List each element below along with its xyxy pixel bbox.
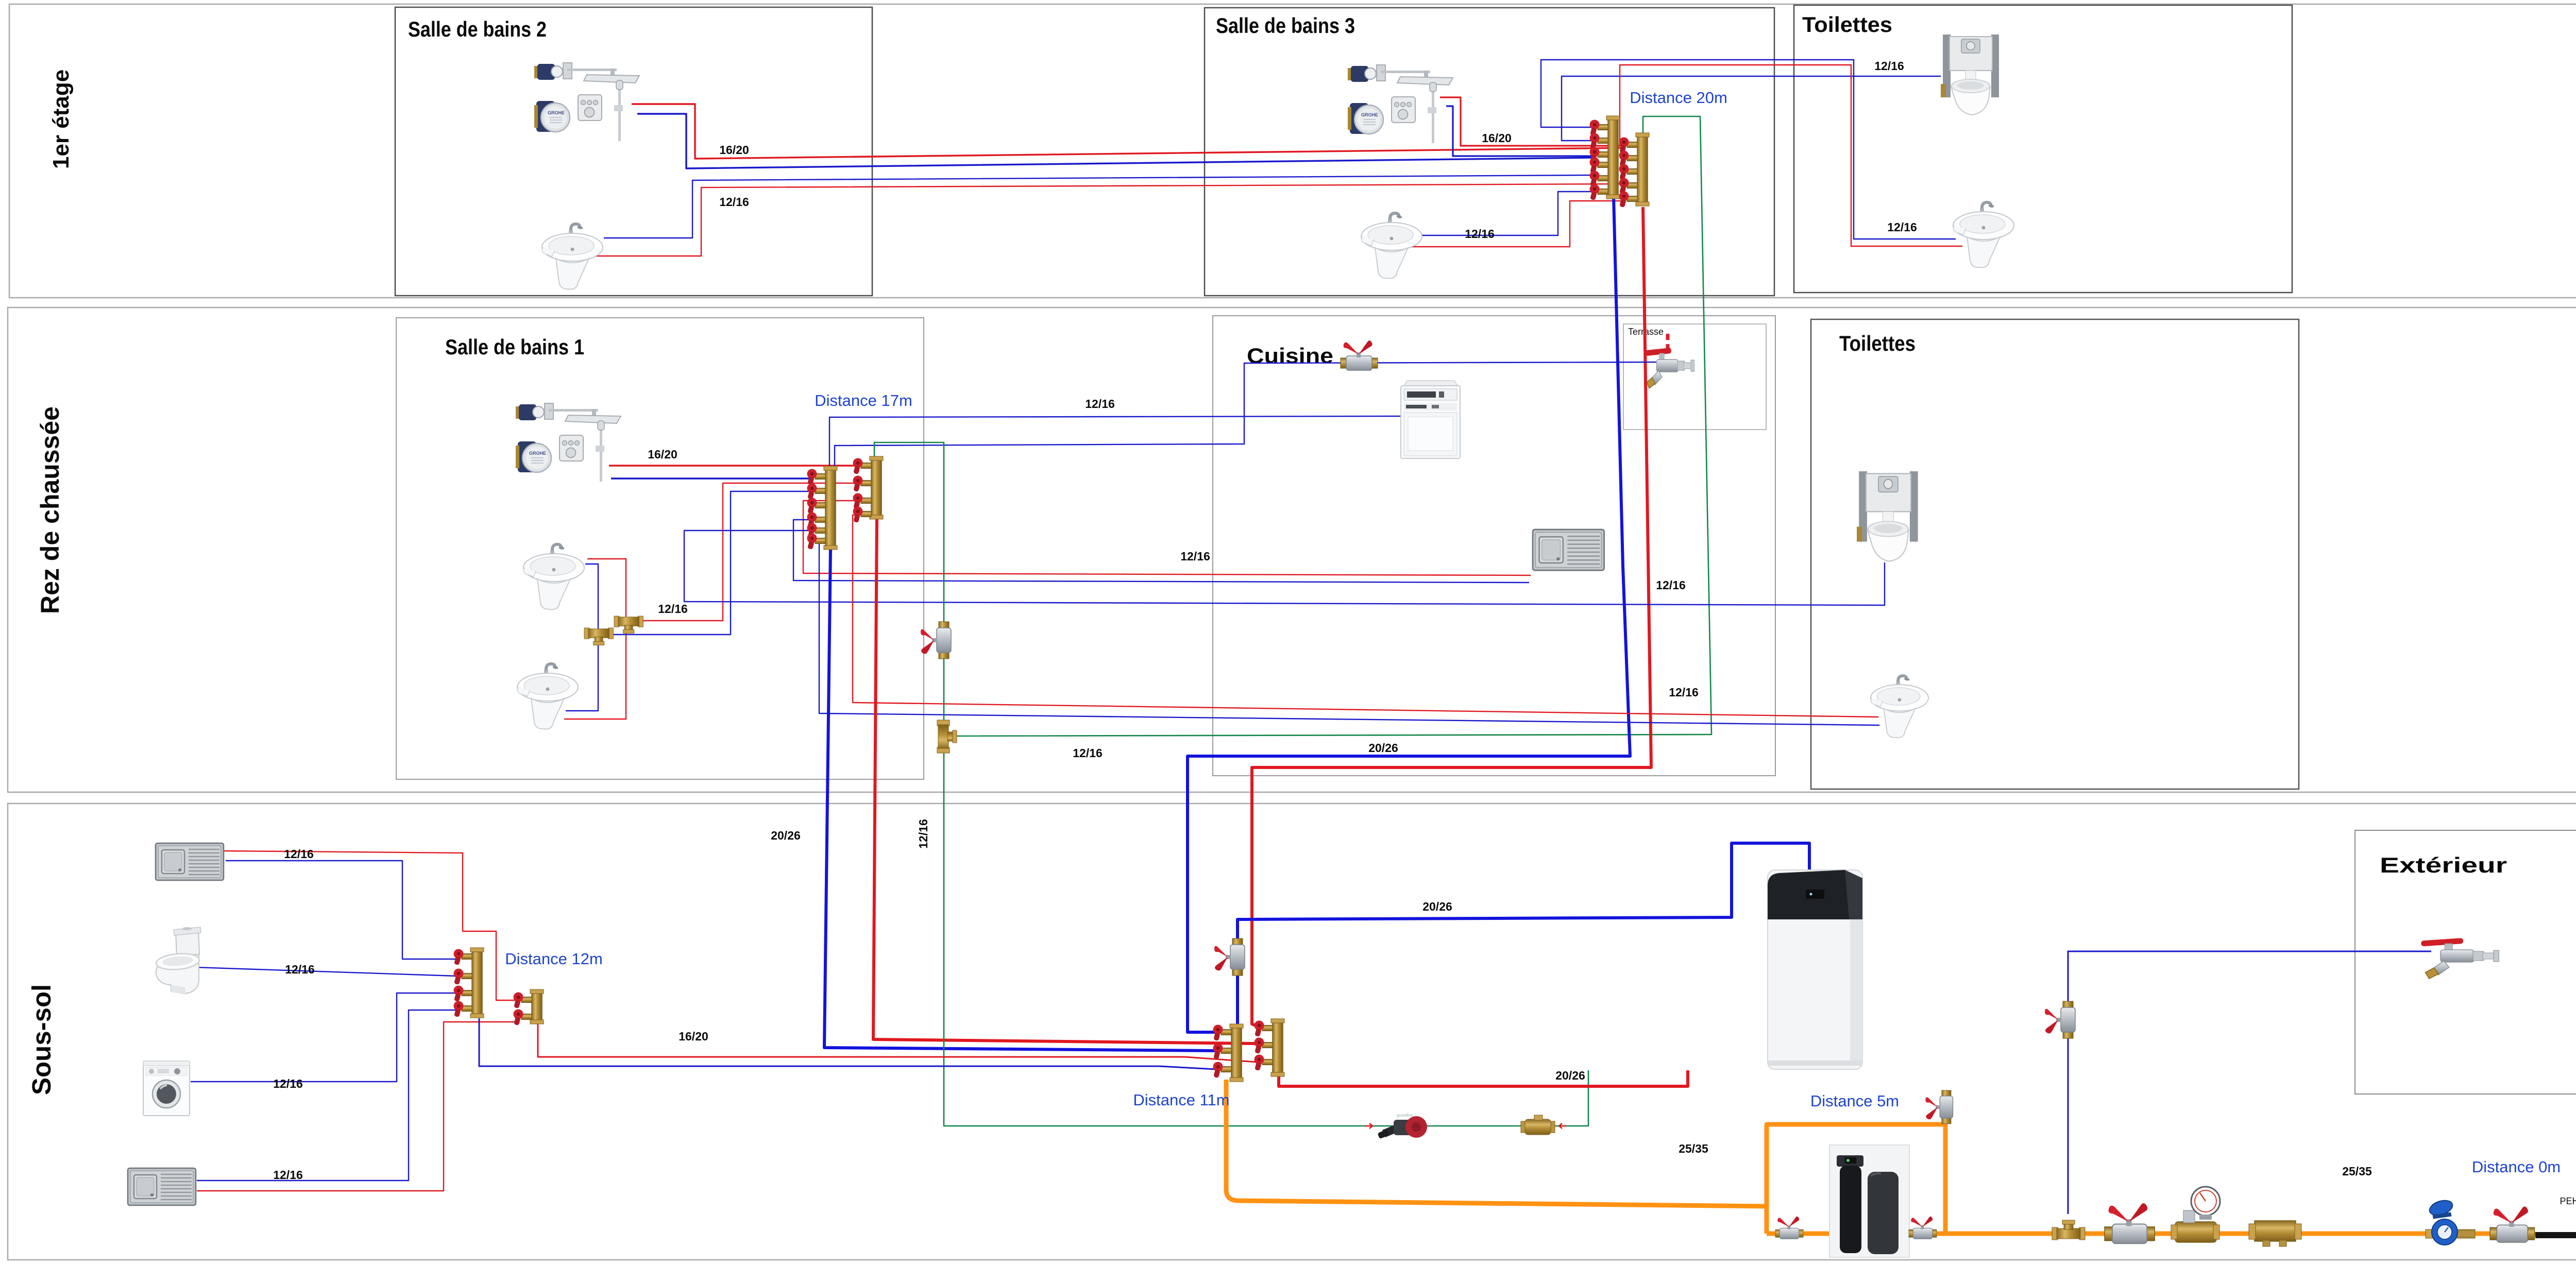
manifold M1 cold etage	[1590, 116, 1620, 200]
room box Salle de bains 2	[395, 7, 872, 296]
svg-text:Extérieur: Extérieur	[2380, 853, 2507, 877]
brass tee exterior branch	[2052, 1220, 2085, 1240]
svg-text:12/16: 12/16	[1085, 397, 1115, 411]
room box Salle de bains 1	[396, 318, 924, 779]
brass fitting	[2249, 1221, 2301, 1246]
pedestal sink Toilettes etage	[1953, 202, 2014, 268]
room box Toilettes etage	[1794, 5, 2292, 293]
wire SdB3 sink cold	[1401, 192, 1594, 235]
pedestal sink SdB2	[542, 224, 603, 289]
wire Toilettes etage sink hot	[1620, 65, 1962, 246]
wire kitchen sink cold	[793, 520, 1529, 583]
svg-text:12/16: 12/16	[1073, 746, 1103, 760]
svg-text:20/26: 20/26	[771, 829, 801, 842]
ball valve main large	[2105, 1203, 2155, 1243]
svg-text:12/16: 12/16	[1669, 686, 1699, 699]
wire SdB3 shower cold	[1446, 106, 1594, 156]
room box Cuisine	[1213, 316, 1775, 776]
svg-text:20/26: 20/26	[1555, 1069, 1585, 1082]
pedestal sink SdB3	[1361, 213, 1422, 279]
brass check valve	[1521, 1115, 1555, 1135]
wire hot riser 20/26 manifold2 to basement	[1252, 207, 1651, 1028]
wire hot recirculation loop left 12/16	[874, 442, 1588, 1126]
pressure reducer with gauge	[2171, 1187, 2220, 1242]
wire SdB2 sink hot 12/16	[590, 184, 1625, 256]
circulation pump	[1377, 1113, 1427, 1139]
shower set SdB1	[516, 403, 621, 482]
PIPES-BAND1	[590, 60, 1962, 1032]
wire Toilettes etage WC cold	[1562, 76, 1941, 141]
manifold M2 hot etage	[1619, 133, 1650, 208]
room box Exterieur	[2355, 830, 2576, 1094]
svg-text:12/16: 12/16	[273, 1077, 303, 1090]
ball valve exterior riser	[2045, 1001, 2075, 1038]
svg-text:16/20: 16/20	[1482, 131, 1512, 145]
svg-text:20/26: 20/26	[1422, 900, 1452, 913]
wire basement sink1 hot	[224, 851, 517, 1000]
wire dishwasher cold	[829, 416, 1402, 466]
svg-text:Distance 11m: Distance 11m	[1133, 1091, 1229, 1109]
svg-text:12/16: 12/16	[284, 847, 314, 861]
water softener	[1829, 1145, 1909, 1257]
svg-text:16/20: 16/20	[648, 448, 677, 461]
wire SdB1 tee hot to manifold4	[642, 483, 858, 621]
ball valve after softener	[1909, 1217, 1937, 1239]
brass tee SdB1 cold	[584, 628, 613, 645]
pipe orange main 25/35 to manifold7	[1226, 1080, 1767, 1206]
svg-text:Rez de chaussée: Rez de chaussée	[36, 406, 64, 614]
arrow right of pump	[1559, 1123, 1566, 1129]
shower set SdB3	[1348, 65, 1453, 143]
manifold M4 hot rez	[853, 456, 884, 523]
room box Terrasse	[1623, 324, 1766, 430]
wire SdB1 sinks hot drop	[564, 559, 626, 719]
wire cold riser 20/26 manifold1 to basement	[1188, 197, 1630, 1032]
manifold M3 cold rez	[807, 466, 838, 550]
wire basement sink2 cold	[197, 1010, 457, 1181]
arrow left of pump	[1365, 1123, 1372, 1129]
wire SdB3 sink hot	[1402, 201, 1625, 247]
wire exterior tap cold	[2068, 951, 2431, 1214]
svg-text:12/16: 12/16	[273, 1168, 303, 1182]
wire washing machine cold	[191, 993, 457, 1082]
washing machine basement	[143, 1061, 190, 1116]
shower set SdB2	[534, 63, 639, 141]
wire Toilettes rez WC cold	[684, 531, 1885, 605]
pedestal sink SdB1 upper	[523, 544, 584, 610]
wire SdB1 shower cold 16/20	[611, 477, 811, 479]
dishwasher	[1401, 381, 1460, 458]
svg-text:12/16: 12/16	[917, 819, 930, 849]
PIPES-BAND2	[564, 362, 1885, 1126]
wire SdB3 shower hot	[1440, 97, 1625, 146]
svg-text:12/16: 12/16	[1887, 220, 1917, 234]
wire 16/20 hot manifold6 to manifold8	[538, 1024, 1257, 1062]
svg-text:12/16: 12/16	[719, 195, 749, 209]
inox sink basement 2	[128, 1168, 196, 1205]
ball valve kitchen cold	[1341, 340, 1378, 370]
svg-text:12/16: 12/16	[1874, 59, 1904, 73]
svg-text:Salle de bains 1: Salle de bains 1	[445, 335, 584, 359]
svg-text:25/35: 25/35	[1679, 1142, 1708, 1155]
svg-text:Distance 20m: Distance 20m	[1630, 89, 1727, 107]
room box Toilettes rez	[1811, 319, 2299, 789]
floor band Sous-sol	[8, 804, 2576, 1260]
kitchen sink inox	[1533, 529, 1604, 570]
manifold M7 cold main	[1213, 1024, 1244, 1082]
wire kitchen valve and terrasse tap cold	[835, 362, 1663, 466]
pipe orange softener bypass	[1767, 1124, 1945, 1234]
brass tee recirculation	[937, 720, 957, 753]
svg-text:PEHD 32: PEHD 32	[2560, 1196, 2576, 1206]
svg-text:12/16: 12/16	[1656, 578, 1686, 592]
wire basement sink1 cold	[226, 861, 457, 959]
svg-text:Distance 5m: Distance 5m	[1810, 1092, 1899, 1110]
ball valve recirculation green	[921, 622, 951, 659]
manifold M6 hot basement	[514, 989, 544, 1025]
svg-text:25/35: 25/35	[2342, 1165, 2372, 1178]
wire SdB2 sink cold 12/16	[604, 175, 1594, 238]
svg-text:Salle de bains 2: Salle de bains 2	[408, 17, 547, 41]
outdoor tap exterieur	[2421, 938, 2499, 979]
wire SdB1 tee cold to manifold3	[613, 491, 811, 635]
water meter	[2426, 1198, 2475, 1245]
svg-text:Cuisine: Cuisine	[1247, 344, 1333, 368]
svg-text:Toilettes: Toilettes	[1802, 12, 1892, 37]
wire basement sink2 hot	[197, 1022, 517, 1191]
pipe PEHD 32	[2535, 1232, 2576, 1238]
svg-text:Toilettes: Toilettes	[1839, 331, 1916, 355]
svg-text:16/20: 16/20	[679, 1030, 708, 1043]
boiler	[1768, 870, 1862, 1069]
pedestal sink SdB1 lower	[517, 664, 578, 729]
inox sink basement 1	[156, 843, 224, 880]
wire 20/26 hot boiler to manifold8	[1279, 1070, 1688, 1086]
wall WC Toilettes rez	[1857, 471, 1918, 561]
wire 20/26 cold boiler feed	[1238, 843, 1809, 1024]
outdoor tap terrasse	[1644, 348, 1694, 388]
ball valve end of main	[2490, 1206, 2534, 1242]
manifold M5 cold basement	[454, 948, 484, 1018]
floor WC basement	[156, 927, 201, 995]
wire 16/20 cold manifold5 to manifold7	[479, 1018, 1216, 1069]
svg-text:12/16: 12/16	[658, 602, 688, 616]
wire SdB2 shower cold 16/20	[637, 114, 1594, 168]
pedestal sink Toilettes rez	[1871, 676, 1928, 738]
wall WC Toilettes etage	[1941, 35, 1999, 115]
wire kitchen sink hot	[803, 501, 1531, 575]
wire SdB1 shower hot 16/20	[609, 465, 858, 466]
wire basement toilet cold	[195, 967, 457, 976]
svg-text:12/16: 12/16	[285, 963, 315, 976]
floor band Rez de chaussee	[8, 307, 2576, 792]
svg-text:1er étage: 1er étage	[48, 70, 74, 169]
PIPES-BAND3	[191, 843, 2576, 1235]
wire Toilettes rez sink cold	[811, 541, 1879, 725]
room box Salle de bains 3	[1205, 8, 1774, 296]
svg-text:12/16: 12/16	[1180, 550, 1210, 563]
svg-text:Distance 0m: Distance 0m	[2472, 1158, 2561, 1176]
svg-text:Salle de bains 3: Salle de bains 3	[1216, 13, 1355, 38]
svg-text:Distance 17m: Distance 17m	[815, 391, 912, 409]
pipe orange main line	[1767, 1232, 2535, 1236]
wire SdB2 shower hot 16/20	[632, 104, 1625, 159]
wire hot riser 20/26 manifold4 to basement	[873, 519, 1257, 1044]
manifold M8 hot main	[1255, 1019, 1285, 1076]
wire SdB1 sinks cold drop	[566, 564, 598, 711]
wire Toilettes etage sink cold	[1541, 60, 1956, 239]
ball valve before softener	[1775, 1217, 1803, 1239]
svg-text:12/16: 12/16	[1465, 227, 1495, 241]
svg-text:16/20: 16/20	[719, 143, 749, 157]
wire hot recirculation loop right	[951, 116, 1711, 736]
wire Toilettes rez sink hot	[853, 515, 1878, 717]
svg-text:Distance 12m: Distance 12m	[505, 950, 603, 968]
svg-text:Sous-sol: Sous-sol	[27, 984, 56, 1095]
brass tee SdB1 hot	[614, 616, 643, 633]
wire cold riser 20/26 manifold3 to basement	[824, 550, 1216, 1051]
svg-text:20/26: 20/26	[1368, 741, 1398, 755]
ball valve boiler cold feed	[1214, 938, 1245, 976]
ball valve bypass	[1925, 1090, 1953, 1124]
red dashes terrasse tap handle	[1666, 334, 1670, 348]
floor band 1er etage	[9, 4, 2576, 298]
